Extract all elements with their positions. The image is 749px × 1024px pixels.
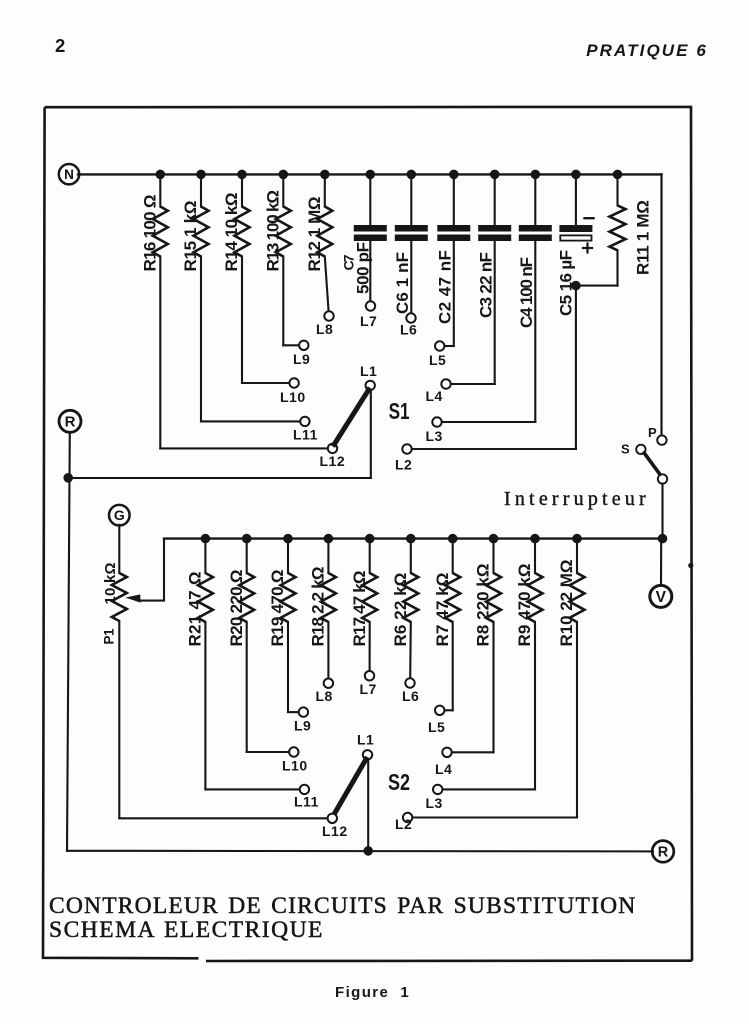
node top bus junction <box>156 170 166 180</box>
wire junction to V <box>660 539 662 586</box>
wire C4 to L3 <box>534 241 536 422</box>
contact L11 S1 <box>300 417 309 426</box>
contact L3 S1 <box>432 417 441 426</box>
svg-text:P1: P1 <box>101 628 116 644</box>
svg-text:L3: L3 <box>426 428 443 444</box>
wire R17 to L7 <box>369 622 371 671</box>
contact L10 S1 <box>289 378 298 387</box>
node top bus junction <box>366 170 376 180</box>
terminal R left <box>59 410 81 432</box>
svg-text:L9: L9 <box>293 351 310 367</box>
wire C5 to L2 <box>575 286 577 449</box>
wire R13 to L9 <box>282 257 284 346</box>
node lower bus junction <box>530 534 540 544</box>
wire R14 to L10 <box>241 257 243 384</box>
wire S2 L1 down to R rail <box>367 759 369 851</box>
svg-text:R15 1 kΩ: R15 1 kΩ <box>181 201 200 272</box>
terminal V <box>650 585 672 607</box>
resistor R14 <box>241 174 243 206</box>
svg-text:CONTROLEUR DE CIRCUITS PAR SUB: CONTROLEUR DE CIRCUITS PAR SUBSTITUTION <box>49 893 636 919</box>
svg-text:R6 22 kΩ: R6 22 kΩ <box>391 572 410 646</box>
wire P1 bottom to L12 <box>118 621 120 818</box>
contact L2 S2 <box>403 813 412 822</box>
C5 polarity plus <box>583 247 592 249</box>
node top bus junction <box>490 170 500 180</box>
wire R20 to L10 <box>246 622 248 752</box>
svg-text:R: R <box>65 414 76 431</box>
node lower bus right junction <box>658 534 668 544</box>
capacitor C2 <box>453 174 455 225</box>
svg-text:R17 47 kΩ: R17 47 kΩ <box>350 571 369 646</box>
contact L8 S2 <box>324 679 333 688</box>
wire R11 to C5 bottom <box>576 285 618 287</box>
contact L4 S1 <box>441 379 450 388</box>
contact L12 S1 <box>328 444 337 453</box>
resistor R12 <box>324 174 326 206</box>
svg-text:R18 2,2 kΩ: R18 2,2 kΩ <box>308 567 327 646</box>
svg-text:L6: L6 <box>402 688 419 704</box>
svg-text:G: G <box>114 507 125 523</box>
resistor R18 <box>327 539 329 573</box>
svg-text:L8: L8 <box>316 688 333 704</box>
node lower bus junction <box>572 534 582 544</box>
wire R left vertical <box>67 432 70 851</box>
contact L8 S1 <box>324 311 333 320</box>
svg-text:L11: L11 <box>294 794 319 810</box>
resistor R11 <box>616 174 618 205</box>
svg-text:L9: L9 <box>294 718 311 734</box>
node top bus junction <box>279 170 289 180</box>
rotary switch S2 wiper <box>334 759 366 814</box>
svg-text:R21 47 Ω: R21 47 Ω <box>185 571 204 646</box>
wire R19 to L9 <box>287 622 289 712</box>
svg-text:L7: L7 <box>360 681 377 697</box>
svg-text:L4: L4 <box>426 388 443 404</box>
node lower bus junction <box>489 534 499 544</box>
svg-text:2: 2 <box>55 35 65 56</box>
wire lower bus <box>164 537 663 539</box>
svg-text:L1: L1 <box>360 363 377 379</box>
node top bus junction <box>407 170 417 180</box>
contact L9 S1 <box>299 341 308 350</box>
resistor R15 <box>200 174 202 206</box>
svg-text:L1: L1 <box>357 732 374 748</box>
wire R15 to L11 <box>200 257 202 422</box>
contact L1 S2 <box>363 750 372 759</box>
contact L3 S2 <box>433 785 442 794</box>
node lower bus junction <box>283 534 293 544</box>
svg-text:S: S <box>621 442 630 457</box>
svg-text:R11 1 MΩ: R11 1 MΩ <box>634 200 653 275</box>
capacitor C3 <box>494 174 496 225</box>
wire R21 to L11 <box>204 622 206 789</box>
resistor R21 <box>204 539 206 573</box>
svg-text:L2: L2 <box>395 457 412 473</box>
node lower bus junction <box>201 534 211 544</box>
wire S1 output to R rail <box>68 477 371 479</box>
node R rail junction <box>63 473 73 483</box>
node top bus junction <box>449 170 459 180</box>
wire R16 to L12 <box>159 257 161 449</box>
potentiometer P1 <box>112 573 127 621</box>
svg-text:P: P <box>648 425 657 440</box>
svg-text:R14 10 kΩ: R14 10 kΩ <box>222 193 241 272</box>
svg-text:L8: L8 <box>316 321 333 337</box>
wire R18 to L8 <box>327 622 329 679</box>
svg-text:R20 220 Ω: R20 220 Ω <box>227 570 246 646</box>
contact P interrupteur <box>657 435 666 444</box>
svg-text:S2: S2 <box>388 769 410 795</box>
svg-text:R9 470 kΩ: R9 470 kΩ <box>515 563 534 646</box>
svg-text:C4 100 nF: C4 100 nF <box>517 257 536 328</box>
svg-text:Figure 1: Figure 1 <box>335 984 410 1001</box>
capacitor C6 <box>410 174 412 225</box>
wire R bottom horizontal <box>67 850 653 853</box>
interrupteur lever <box>644 453 660 475</box>
resistor R16 <box>159 174 161 206</box>
terminal G <box>109 505 130 526</box>
node lower bus junction <box>324 534 334 544</box>
svg-text:R13 100 kΩ: R13 100 kΩ <box>263 191 282 272</box>
terminal R bottom right <box>652 841 674 863</box>
svg-text:L10: L10 <box>280 389 306 405</box>
svg-text:R8 220 kΩ: R8 220 kΩ <box>474 563 493 646</box>
node S2 output junction <box>363 846 373 856</box>
svg-text:R10 22 MΩ: R10 22 MΩ <box>557 560 576 647</box>
svg-text:N: N <box>64 167 74 182</box>
wire C3 to L4 <box>494 241 496 384</box>
wire S1 L1 down <box>370 390 372 478</box>
resistor R7 <box>452 539 454 573</box>
contact L7 S1 <box>366 301 375 310</box>
svg-text:SCHEMA ELECTRIQUE: SCHEMA ELECTRIQUE <box>49 917 324 943</box>
capacitor C7 <box>369 174 371 225</box>
contact L5 S2 <box>435 706 444 715</box>
contact L11 S2 <box>300 785 309 794</box>
node lower bus junction <box>448 534 458 544</box>
wire R10 to L2 <box>576 622 578 818</box>
wire wiper to lower bus <box>163 539 165 600</box>
resistor R19 <box>287 539 289 573</box>
svg-text:R7 47 kΩ: R7 47 kΩ <box>433 572 452 646</box>
node lower bus junction <box>365 534 375 544</box>
resistor R8 <box>492 539 494 573</box>
capacitor C5 electrolytic <box>575 174 577 225</box>
resistor R9 <box>534 539 536 573</box>
svg-text:L6: L6 <box>400 322 417 338</box>
contact L1 S1 <box>366 381 375 390</box>
contact L2 S1 <box>402 444 411 453</box>
svg-text:C3 22 nF: C3 22 nF <box>476 252 495 318</box>
svg-text:S1: S1 <box>389 398 410 424</box>
contact L7 S2 <box>365 671 374 680</box>
resistor R20 <box>246 539 248 573</box>
svg-text:R12 1 MΩ: R12 1 MΩ <box>305 197 324 272</box>
wire R7 to L5 <box>452 622 454 710</box>
wire C2 to L5 <box>453 241 455 346</box>
wire C6 to L6 <box>410 241 412 313</box>
node C5/R11 junction <box>571 281 581 291</box>
svg-text:R16 100 Ω: R16 100 Ω <box>140 195 159 271</box>
svg-text:L12: L12 <box>322 823 348 839</box>
contact L10 S2 <box>289 747 298 756</box>
svg-text:L2: L2 <box>395 816 412 832</box>
contact S interrupteur <box>636 445 645 454</box>
node top bus junction <box>531 170 541 180</box>
C5 polarity minus <box>585 217 594 219</box>
node top bus junction <box>196 170 206 180</box>
wire right drop to interrupteur P <box>660 174 662 435</box>
wire G to P1 <box>118 525 120 573</box>
rotary switch S1 wiper <box>334 390 368 445</box>
svg-text:L4: L4 <box>435 761 452 777</box>
interrupteur lever end contact <box>658 474 667 483</box>
wire R12 to L8 <box>325 257 329 312</box>
svg-text:PRATIQUE 6: PRATIQUE 6 <box>586 41 708 60</box>
svg-text:L11: L11 <box>293 427 318 443</box>
contact L6 S2 <box>405 678 414 687</box>
capacitor C4 <box>534 174 536 225</box>
wire R6 to L6 <box>409 622 412 678</box>
wire R8 to L4 <box>492 622 494 752</box>
frame ink blob artifact <box>688 563 693 568</box>
contact L12 S2 <box>328 814 337 823</box>
svg-text:L5: L5 <box>429 352 446 368</box>
svg-text:Interrupteur: Interrupteur <box>504 488 650 510</box>
svg-text:V: V <box>656 589 667 606</box>
svg-text:C2 47 nF: C2 47 nF <box>435 250 454 324</box>
contact L5 S1 <box>435 341 444 350</box>
svg-text:L12: L12 <box>320 453 346 469</box>
node top bus junction R11 <box>613 170 623 180</box>
wire top bus from N <box>78 173 662 175</box>
node top bus junction <box>320 170 330 180</box>
svg-text:C6 1 nF: C6 1 nF <box>393 252 412 314</box>
P1 wiper arrow <box>138 600 164 602</box>
contact L9 S2 <box>299 707 308 716</box>
resistor R6 <box>410 539 412 573</box>
terminal N <box>59 164 79 184</box>
svg-text:R: R <box>658 845 669 861</box>
wire R9 to L3 <box>534 622 536 789</box>
svg-text:L10: L10 <box>282 758 308 774</box>
svg-text:R19 470 Ω: R19 470 Ω <box>268 570 287 646</box>
wire C7 to L7 <box>369 241 371 301</box>
resistor R10 <box>576 539 578 573</box>
contact L4 S2 <box>442 748 451 757</box>
resistor R13 <box>282 174 284 206</box>
contact L6 S1 <box>406 313 415 322</box>
svg-text:L3: L3 <box>426 795 443 811</box>
svg-text:L5: L5 <box>428 719 445 735</box>
node top bus junction <box>237 170 247 180</box>
svg-text:L7: L7 <box>360 313 377 329</box>
node lower bus junction <box>406 534 416 544</box>
node lower bus junction <box>242 534 252 544</box>
resistor R17 <box>369 539 371 573</box>
wire lever to lower bus <box>661 484 663 539</box>
svg-text:10 kΩ: 10 kΩ <box>102 562 119 604</box>
